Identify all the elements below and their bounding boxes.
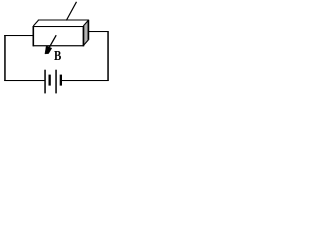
slab front bottom edge <box>33 45 84 46</box>
slab bottom right diagonal edge <box>83 40 88 46</box>
slab front left edge <box>33 26 35 46</box>
slab front face <box>33 27 83 46</box>
slab front right edge <box>83 26 85 46</box>
battery cell 1 negative plate (short thick) <box>49 75 51 86</box>
magnetic field arrowhead <box>45 46 52 54</box>
wire right vertical <box>107 31 109 81</box>
wire left vertical <box>4 35 6 81</box>
slab right face (shaded) <box>83 20 88 45</box>
slab back top edge <box>38 19 89 21</box>
battery cell 2 positive plate (long) <box>55 70 57 94</box>
slab left top diagonal edge <box>33 20 38 26</box>
wire bottom right from battery <box>61 80 109 81</box>
slab right top diagonal edge <box>83 20 88 26</box>
magnetic field arrow shaft <box>49 35 56 47</box>
leader line to top face <box>66 2 76 21</box>
battery cell 2 negative plate (short thick) <box>60 75 62 86</box>
battery cell 1 positive plate (long) <box>44 70 46 94</box>
wire right horizontal to slab <box>88 31 108 32</box>
wire left horizontal from slab <box>4 35 34 36</box>
slab front top edge <box>33 26 84 27</box>
slab back right edge <box>87 20 89 40</box>
wire bottom left to battery <box>4 80 45 81</box>
label B magnetic field <box>54 50 61 64</box>
